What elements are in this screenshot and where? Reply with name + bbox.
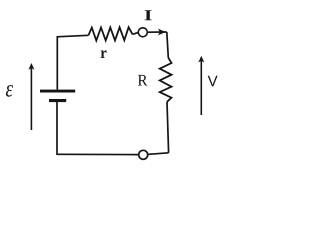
arrowhead: current I direction <box>158 29 166 36</box>
label EMF epsilon <box>6 85 13 97</box>
resistor R (vertical zigzag) <box>160 58 172 102</box>
arrowhead: EMF arrow <box>28 63 34 70</box>
wire: from top terminal to top-right corner (current path) <box>148 31 167 33</box>
resistor r (zigzag) <box>89 27 133 40</box>
arrow: terminal voltage V (up) <box>200 60 202 115</box>
wire: right vertical from R down to bottom-right corner <box>167 102 169 153</box>
arrowhead: V arrow <box>198 56 204 63</box>
wire: left vertical (top section, EMF top to top-left corner) <box>56 37 58 90</box>
label r <box>101 50 107 58</box>
arrow: EMF direction (up) <box>30 67 32 130</box>
label R <box>138 75 148 86</box>
label V <box>208 76 218 87</box>
label I <box>145 10 152 20</box>
wire: right vertical from top-right corner down to resistor R <box>167 32 169 58</box>
battery: EMF source, long top plate <box>40 90 75 93</box>
wire: stub from r to top terminal <box>133 33 139 35</box>
wire: bottom from bottom-right corner to bottom terminal <box>148 153 168 155</box>
node: top terminal (open circle) <box>138 28 147 37</box>
battery: EMF source, short bottom plate <box>49 99 66 102</box>
wire: bottom from bottom terminal to bottom-left corner <box>57 153 138 155</box>
wire: left vertical (bottom section, corner up to EMF bottom) <box>56 102 58 155</box>
wire: top horizontal from top-left corner to resistor r <box>57 35 89 37</box>
node: bottom terminal (open circle) <box>139 150 148 159</box>
